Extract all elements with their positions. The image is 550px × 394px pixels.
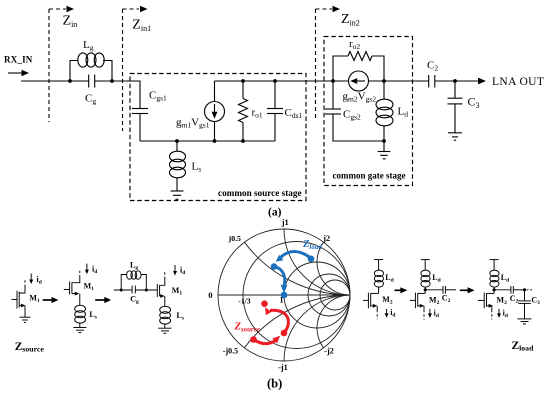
node B: [110, 79, 114, 83]
svg-text:Ld: Ld: [385, 273, 393, 284]
svg-text:j1: j1: [281, 218, 289, 227]
wire C2 out (circuit R2): [445, 289, 456, 291]
drain dashed lead (circuit 2): [79, 270, 81, 278]
capacitor Cgs1: [132, 109, 148, 114]
ground (CG): [378, 152, 391, 159]
wire input to node A: [21, 80, 89, 82]
node output: [453, 79, 457, 83]
svg-text:id: id: [180, 266, 185, 277]
svg-text:C2: C2: [510, 294, 519, 305]
transistor M2 (circuit R1): [363, 293, 379, 310]
node tank right: [145, 289, 148, 292]
wire Cgs2 to CG bottom rail: [333, 114, 384, 141]
drain dashed lead (circuit 3): [164, 271, 166, 279]
smith arc +j2: [317, 242, 350, 295]
node output (circuit R3): [523, 288, 526, 291]
wire drain rail: [215, 80, 349, 82]
node tank left: [120, 289, 123, 292]
dashed continuation (circuit R3): [527, 289, 533, 291]
dashed box common source stage: [130, 74, 306, 201]
svg-text:Ls: Ls: [89, 310, 96, 321]
SECTION B-mid: Smith chart: [208, 218, 350, 391]
capacitor Cgs2: [325, 109, 341, 114]
wire CG bottom to ground: [383, 141, 385, 152]
svg-text:C2: C2: [427, 60, 438, 73]
capacitor C2 (circuit R3): [511, 286, 513, 294]
svg-text:Cg: Cg: [85, 93, 96, 106]
inductor Ld (circuit R2): [421, 260, 430, 290]
svg-text:Lg: Lg: [83, 39, 94, 52]
id arrow (circuit 2): [85, 264, 89, 275]
smith arc +j0.5: [244, 242, 350, 295]
node Ls junction: [175, 139, 179, 143]
wire current source to source rail: [214, 122, 216, 142]
node A: [68, 79, 72, 83]
smith R-circle 4: [320, 280, 350, 310]
drain dashed lead (circuit 1): [24, 280, 26, 288]
blue curve 2: [276, 267, 285, 286]
blue curve 1: [280, 252, 312, 259]
current source gm1vgs1: [205, 102, 225, 122]
node CG bottom: [382, 139, 386, 143]
arrow R2 to R3: [460, 287, 475, 293]
supply rail (circuit R2): [421, 259, 430, 261]
wire drain to C2 (circuit R2): [425, 289, 443, 291]
capacitor C2 (circuit R2): [443, 286, 445, 294]
svg-text:0: 0: [208, 290, 212, 300]
svg-text:common source stage: common source stage: [218, 188, 302, 198]
input arrow: [8, 70, 29, 77]
red curve 1: [254, 340, 277, 344]
smith R-circle 1: [243, 242, 350, 349]
svg-text:Ld: Ld: [398, 106, 409, 119]
inductor Ld: [376, 81, 393, 141]
wire C2 to output node: [435, 80, 455, 82]
transistor M2 (circuit R2): [410, 290, 425, 310]
blue arrowhead 1: [276, 255, 284, 262]
blue dot mid: [271, 263, 278, 270]
ground (Ls): [171, 191, 184, 199]
arrow circuit1 to circuit2: [43, 297, 59, 303]
red arrowhead 2: [265, 307, 272, 315]
svg-text:id: id: [390, 308, 395, 319]
inductor Ls: [170, 141, 186, 191]
svg-text:Lg: Lg: [130, 261, 138, 272]
smith R-circle 2: [284, 262, 350, 328]
inductor Lg (circuit 3): [121, 271, 146, 290]
blue arrowhead 2: [281, 285, 288, 293]
supply rail (circuit R3): [490, 259, 499, 261]
inductor Lg: [70, 53, 112, 81]
svg-text:id: id: [92, 265, 97, 276]
transistor M1 (circuit 1): [12, 287, 26, 317]
smith arc -j0.5: [244, 295, 350, 348]
svg-text:Zload: Zload: [512, 340, 535, 353]
svg-text:gm2Vgs2: gm2Vgs2: [343, 91, 377, 104]
ground (C3): [448, 133, 462, 140]
arrow R1 to R2: [395, 287, 408, 293]
svg-text:Cgs1: Cgs1: [149, 90, 167, 103]
measure line Zin: [49, 9, 66, 122]
svg-text:Zin1: Zin1: [132, 18, 151, 34]
wire C2 to output node (circuit R3): [513, 289, 524, 291]
smith axis: [218, 294, 350, 296]
node CG left: [331, 79, 335, 83]
capacitor Cds1: [267, 81, 283, 141]
resistor ro1: [239, 81, 248, 141]
svg-text:LNA OUT: LNA OUT: [492, 76, 544, 88]
inductor Ls (circuit 3): [160, 306, 171, 328]
wire Cgs1 to source rail: [139, 114, 141, 142]
measure line Zin2: [316, 9, 333, 120]
ground (circuit 1): [20, 317, 31, 322]
arrow circuit2 to circuit3: [95, 297, 111, 303]
resistor ro2: [348, 52, 372, 61]
SECTION B-right: Z_load circuits: [363, 260, 540, 353]
node drain (circuit R3): [493, 288, 496, 291]
wire CG left branch up: [333, 56, 348, 81]
red curve 2: [270, 310, 288, 333]
ground (C3 circuit R3): [518, 319, 532, 324]
wire drain rail left corner: [214, 81, 216, 102]
blue dot start: [308, 255, 315, 262]
svg-text:Cg: Cg: [130, 295, 139, 306]
red dot end: [261, 300, 268, 307]
svg-text:M1: M1: [29, 294, 40, 305]
red dot mid: [281, 330, 288, 337]
svg-text:Ld: Ld: [432, 273, 440, 284]
svg-text:Zsource: Zsource: [234, 322, 260, 334]
smith outer circle: [218, 229, 350, 361]
smith arc -j1: [284, 295, 350, 361]
svg-text:(a): (a): [268, 207, 282, 219]
inductor Ls (circuit 2): [75, 305, 86, 327]
id arrow (circuit 3): [173, 265, 177, 276]
wire CG left branch down: [332, 81, 334, 109]
source dashed lead (circuit R2): [423, 310, 425, 320]
svg-text:M2: M2: [382, 295, 393, 306]
output arrow: [455, 78, 486, 85]
svg-text:j0.5: j0.5: [228, 234, 241, 243]
node ro1 bottom: [241, 139, 245, 143]
smith arc -j2: [317, 295, 350, 348]
svg-text:Zsource: Zsource: [15, 341, 45, 354]
id arrow (circuit R2): [428, 309, 432, 318]
capacitor C2: [429, 75, 435, 88]
capacitor Cg (series): [89, 75, 95, 88]
SECTION B-left: Z_source circuits: [12, 261, 186, 354]
svg-text:Zin2: Zin2: [341, 12, 360, 28]
node Cds1 top: [273, 79, 277, 83]
current source gm2vgs2: [349, 71, 369, 91]
svg-text:M2: M2: [497, 295, 508, 306]
svg-text:Ls: Ls: [192, 161, 202, 174]
svg-text:Ls: Ls: [177, 311, 184, 322]
smith R-circle 3: [308, 274, 350, 316]
svg-text:gm1Vgs1: gm1Vgs1: [176, 117, 210, 130]
svg-text:Ld: Ld: [501, 273, 509, 284]
svg-text:M2: M2: [429, 295, 440, 306]
blue trajectory Zload: [276, 252, 312, 287]
svg-text:ro1: ro1: [252, 107, 263, 120]
svg-text:C3: C3: [531, 296, 540, 307]
svg-text:RX_IN: RX_IN: [4, 55, 33, 65]
svg-text:C3: C3: [468, 95, 480, 111]
node CG right: [382, 79, 386, 83]
node current source bottom: [213, 139, 217, 143]
supply rail (circuit R1): [374, 259, 383, 261]
ground (circuit 2): [73, 328, 86, 333]
svg-text:C2: C2: [442, 294, 451, 305]
red dot start: [250, 336, 257, 343]
node ro1 top: [241, 79, 245, 83]
wire gate (circuit 3): [114, 289, 132, 291]
transistor M2 (circuit R3): [478, 290, 494, 310]
wire drain to C2 (circuit R3): [494, 289, 511, 291]
red arrowhead 1: [272, 336, 280, 344]
capacitor Cg (circuit 3): [132, 286, 135, 294]
svg-text:Cds1: Cds1: [285, 107, 303, 120]
svg-text:common gate stage: common gate stage: [333, 171, 406, 181]
svg-text:-j1: -j1: [278, 363, 288, 372]
source dashed lead (circuit R3): [491, 310, 493, 320]
wire ro2 to right branch: [372, 56, 384, 81]
node drain (circuit R2): [424, 288, 427, 291]
svg-text:M1: M1: [172, 286, 183, 297]
capacitor C3: [448, 81, 463, 133]
wire CG to C2: [369, 80, 429, 82]
svg-text:Zin: Zin: [63, 14, 78, 30]
id arrow (circuit 1): [29, 274, 33, 285]
svg-text:ro2: ro2: [349, 38, 360, 51]
svg-text:j2: j2: [322, 234, 330, 243]
capacitor C3 (circuit R3): [518, 290, 531, 319]
SECTION A: top LNA schematic: [4, 6, 544, 219]
measure line Zin1: [123, 9, 140, 131]
smith arc +j1: [284, 229, 350, 295]
wire source rail: [140, 140, 275, 142]
svg-text:Cgs2: Cgs2: [343, 109, 361, 122]
transistor M1 (circuit 2): [64, 278, 80, 306]
inductor Ld (circuit R3): [490, 260, 499, 290]
svg-text:-j0.5: -j0.5: [223, 346, 238, 355]
dashed box common gate stage: [324, 37, 413, 186]
source dashed lead (circuit R1): [376, 310, 378, 320]
svg-text:-1/3: -1/3: [238, 296, 250, 305]
wire node B to gate corner: [95, 81, 140, 109]
id arrow (circuit R1): [385, 309, 389, 318]
svg-text:(b): (b): [267, 377, 282, 391]
red trajectory Zsource: [254, 310, 289, 343]
blue dot end: [281, 292, 288, 299]
svg-text:id: id: [37, 275, 42, 286]
svg-text:-j2: -j2: [324, 346, 334, 355]
transistor M1 (circuit 3): [157, 279, 165, 307]
svg-text:id: id: [434, 308, 439, 319]
inductor Ld (circuit R1): [374, 260, 383, 294]
svg-text:id: id: [503, 308, 508, 319]
ground (circuit 3): [158, 328, 171, 333]
svg-text:M1: M1: [84, 282, 95, 293]
svg-text:Zload: Zload: [302, 239, 322, 251]
id arrow (circuit R3): [497, 309, 501, 318]
